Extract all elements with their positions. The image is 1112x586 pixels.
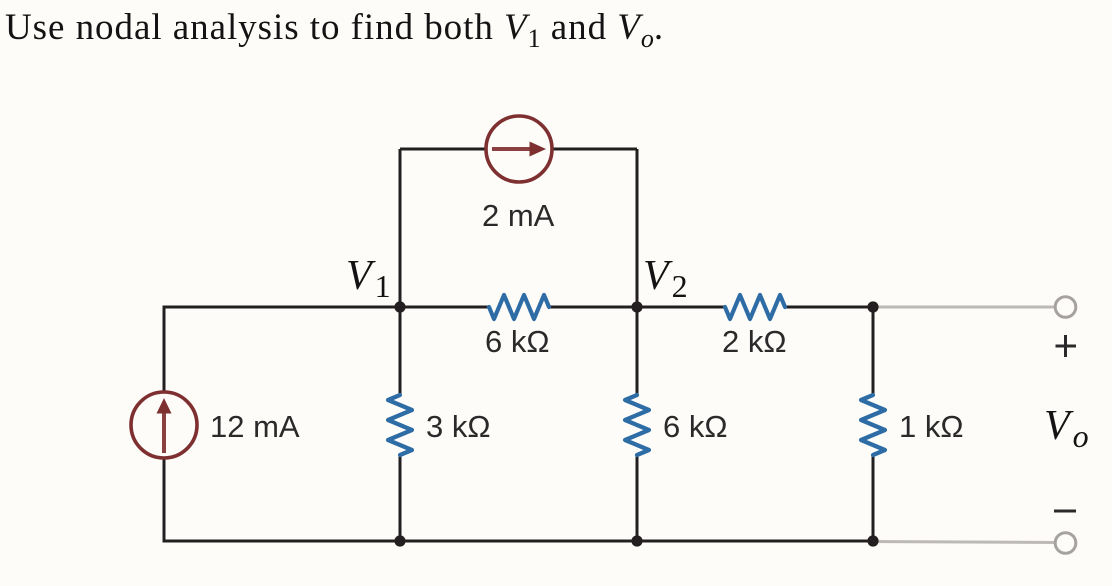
- svg-text:1 kΩ: 1 kΩ: [899, 409, 964, 444]
- resistor 2 kOhm horizontal: [725, 295, 785, 319]
- wire right rail lower: [872, 454, 875, 541]
- svg-text:6 kΩ: 6 kΩ: [663, 409, 728, 444]
- junction bottom V1: [394, 535, 405, 546]
- wire node V2 stub upper: [636, 307, 639, 396]
- wire main horizontal right segment: [784, 306, 873, 309]
- junction bottom right: [867, 535, 878, 546]
- terminal circle bottom: [1055, 533, 1076, 554]
- wire main horizontal left segment: [163, 306, 491, 309]
- wire node V1 stub lower: [399, 454, 402, 541]
- junction right rail top: [867, 301, 878, 312]
- wire top loop right vertical: [636, 149, 639, 307]
- current source I1 arrow head: [157, 398, 172, 414]
- wire top loop left vertical: [399, 149, 402, 307]
- terminal circle top: [1055, 297, 1076, 318]
- resistor 3 kOhm vertical: [388, 395, 412, 455]
- junction bottom V2: [631, 535, 642, 546]
- wire gray output bottom: [873, 542, 1056, 543]
- current source I1 12 mA circle: [131, 392, 197, 458]
- wire left rail lower: [163, 457, 166, 541]
- wire left rail upper: [163, 307, 166, 393]
- svg-text:6 kΩ: 6 kΩ: [485, 324, 550, 359]
- current source I1 arrow shaft: [162, 412, 166, 453]
- junction node V1: [394, 301, 405, 312]
- resistor 6 kOhm horizontal: [489, 295, 549, 319]
- current source I2 2 mA circle: [486, 116, 552, 182]
- svg-text:2 mA: 2 mA: [482, 198, 555, 233]
- label plus terminal: [1056, 335, 1077, 357]
- wire node V1 stub upper: [399, 307, 402, 396]
- svg-text:V1: V1: [346, 253, 391, 304]
- current source I2 arrow head: [530, 142, 547, 157]
- label minus terminal: [1054, 510, 1076, 513]
- wire main horizontal middle segment: [548, 306, 726, 309]
- current source I2 arrow shaft: [492, 147, 530, 151]
- svg-text:V2: V2: [643, 253, 688, 304]
- junction node V2: [631, 301, 642, 312]
- svg-text:Vo: Vo: [1044, 403, 1089, 454]
- resistor 6 kOhm vertical: [625, 395, 649, 455]
- svg-text:2 kΩ: 2 kΩ: [722, 324, 787, 359]
- svg-text:12 mA: 12 mA: [210, 409, 300, 444]
- wire top loop horizontal: [400, 148, 637, 151]
- wire right rail upper: [872, 307, 875, 396]
- wire gray output top: [873, 306, 1055, 309]
- wire bottom horizontal: [163, 540, 874, 543]
- resistor 1 kOhm vertical: [861, 395, 885, 455]
- wire node V2 stub lower: [636, 454, 639, 541]
- svg-text:3 kΩ: 3 kΩ: [426, 409, 491, 444]
